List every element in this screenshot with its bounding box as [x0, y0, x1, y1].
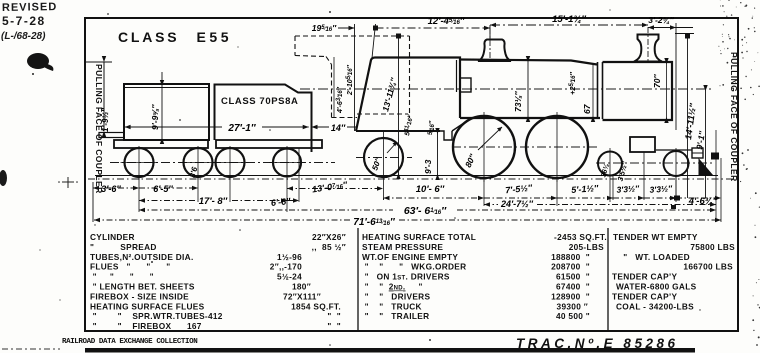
cab step — [440, 131, 452, 140]
dim 15-1 3/4 — [490, 24, 648, 26]
tender underframe bar 1 — [114, 140, 208, 148]
svg-text:FLUES " " ": FLUES " " " — [90, 262, 170, 272]
loco cab — [356, 58, 460, 132]
svg-text:205-LBS: 205-LBS — [569, 242, 604, 252]
dim 73 1/8 — [527, 60, 529, 118]
svg-text:73⅛″: 73⅛″ — [513, 90, 523, 112]
smokebox — [603, 62, 673, 120]
svg-text:" " " WKG.ORDER: " " " WKG.ORDER — [362, 262, 466, 272]
svg-text:1½-96: 1½-96 — [277, 252, 302, 262]
svg-text:128900 ": 128900 " — [551, 291, 590, 301]
smoke stack — [634, 35, 662, 62]
svg-text:PULLING FACE OF COUPLER: PULLING FACE OF COUPLER — [729, 52, 739, 182]
tender wheel 2 — [184, 148, 213, 177]
cab front vent box — [460, 78, 471, 92]
svg-text:75800 LBS: 75800 LBS — [690, 242, 735, 252]
svg-text:2′-105⁄16″: 2′-105⁄16″ — [346, 64, 354, 96]
table divider right — [607, 228, 609, 331]
svg-text:(L-/68-28): (L-/68-28) — [1, 31, 46, 42]
revision note handwriting — [1, 1, 57, 42]
svg-text:3′3½″: 3′3½″ — [649, 183, 673, 195]
svg-text:63′- 61⁄16″: 63′- 61⁄16″ — [404, 205, 447, 217]
svg-text:5-7-28: 5-7-28 — [2, 14, 46, 28]
svg-text:CLASS 70PS8A: CLASS 70PS8A — [221, 96, 298, 107]
front pony wheel — [664, 151, 689, 176]
hole punch blob — [27, 53, 49, 69]
svg-text:12′-45⁄16″: 12′-45⁄16″ — [428, 16, 465, 27]
svg-text:6′-6″: 6′-6″ — [270, 196, 291, 208]
svg-text:15′-1¾″: 15′-1¾″ — [552, 14, 586, 25]
svg-text:166700 LBS: 166700 LBS — [683, 262, 733, 272]
dim 3-2 3/4 — [648, 27, 693, 29]
front coupler — [711, 153, 719, 160]
extension line cab front top — [372, 24, 376, 58]
svg-text:188800 ": 188800 " — [551, 252, 590, 262]
svg-text:6′-5″: 6′-5″ — [153, 184, 173, 194]
svg-text:22″X26″: 22″X26″ — [312, 232, 346, 242]
tender length dim 27-1 — [125, 126, 222, 128]
svg-text:CLASSE55: CLASSE55 — [118, 29, 232, 45]
dim 71-6 13/16 — [94, 219, 350, 221]
svg-text:" LENGTH BET. SHEETS: " LENGTH BET. SHEETS — [90, 282, 195, 292]
svg-text:72″X111″: 72″X111″ — [283, 291, 321, 301]
dim 6-6 — [287, 200, 299, 202]
cylinder box — [630, 137, 655, 152]
dim 3-3 1/2 b — [644, 197, 676, 199]
svg-text:71′-613⁄16″: 71′-613⁄16″ — [353, 217, 396, 228]
svg-text:70″: 70″ — [652, 74, 662, 88]
dim 6-5 — [139, 187, 198, 189]
boiler centerline — [300, 88, 712, 90]
svg-text:FIREBOX - SIZE INSIDE: FIREBOX - SIZE INSIDE — [90, 291, 189, 301]
dim 9-3 5/16 — [437, 132, 439, 176]
svg-text:39300 ″: 39300 ″ — [557, 301, 588, 311]
boiler — [460, 60, 597, 65]
svg-text:STEAM PRESSURE: STEAM PRESSURE — [362, 242, 443, 252]
dim 13-0 7/16 — [287, 188, 383, 190]
svg-text:67: 67 — [582, 103, 592, 114]
dim 67 — [592, 65, 594, 118]
pilot (cowcatcher) — [699, 158, 714, 175]
svg-text:" " " ": " " " " — [90, 272, 154, 282]
pilot bracket — [692, 148, 703, 158]
svg-text:" ": " " — [327, 311, 341, 321]
svg-text:61500 ": 61500 " — [556, 272, 590, 282]
extension lines to dimension tiers — [139, 130, 721, 222]
svg-text:9′-9⅝″: 9′-9⅝″ — [150, 104, 160, 130]
tender wheel 3 — [216, 148, 245, 177]
svg-text:TENDER WT EMPTY: TENDER WT EMPTY — [613, 232, 698, 242]
dim 70 — [666, 62, 668, 119]
top dim 19 5/16 — [338, 27, 355, 29]
svg-text:3′-6″: 3′-6″ — [101, 184, 121, 194]
dashed clearance outline — [295, 36, 410, 118]
extension line cab front bottom — [354, 24, 356, 131]
dim 12-4 5/16 — [376, 27, 491, 29]
front truck wheel 36 5/8 — [598, 152, 622, 176]
svg-text:10′- 6″: 10′- 6″ — [416, 184, 445, 195]
svg-text:1854 SQ.FT.: 1854 SQ.FT. — [291, 301, 341, 311]
tender underframe bar 2 — [216, 140, 322, 148]
table divider left — [357, 228, 359, 331]
svg-text:27′-1″: 27′-1″ — [227, 123, 256, 134]
boiler bands — [597, 62, 599, 119]
svg-text:67400 ": 67400 " — [556, 282, 590, 292]
svg-text:3′3½″: 3′3½″ — [616, 183, 640, 195]
svg-text:" " DRIVERS: " " DRIVERS — [362, 291, 430, 301]
svg-text:WT.OF ENGINE EMPTY: WT.OF ENGINE EMPTY — [362, 252, 458, 262]
tender wheel 4 — [273, 149, 301, 177]
svg-text:HEATING SURFACE TOTAL: HEATING SURFACE TOTAL — [362, 232, 476, 242]
ink mark left edge — [0, 170, 7, 186]
dim 13-11 3/4 cab height — [398, 36, 400, 175]
tender axle centerline — [110, 162, 335, 164]
svg-text:+25⁄16″: +25⁄16″ — [568, 72, 577, 95]
svg-text:195⁄16″: 195⁄16″ — [312, 23, 337, 33]
bottom rule — [85, 348, 695, 353]
gap dim 14 — [312, 126, 330, 128]
svg-text:9′-3: 9′-3 — [423, 159, 433, 174]
svg-text:REVISED: REVISED — [2, 1, 57, 14]
svg-text:TENDER CAP’Y: TENDER CAP’Y — [612, 272, 678, 282]
svg-text:HEATING SURFACE FLUES: HEATING SURFACE FLUES — [90, 301, 205, 311]
svg-text:" " 2ND. ": " " 2ND. " — [362, 282, 423, 292]
rail line — [95, 175, 718, 177]
svg-text:WATER-6800 GALS: WATER-6800 GALS — [616, 282, 697, 292]
svg-text:" SPREAD: " SPREAD — [90, 242, 157, 252]
left margin bottom dashes — [2, 348, 60, 350]
tender wheel 1 — [125, 148, 154, 177]
dim 7-5 1/2 — [484, 197, 557, 199]
svg-text:40 500 ": 40 500 " — [556, 311, 590, 321]
svg-text:" " SPR.WTR.TUBES-41: " " SPR.WTR.TUBES-412 — [90, 311, 223, 321]
svg-text:" ": " " — [327, 321, 341, 331]
svg-text:24′-7½″: 24′-7½″ — [500, 199, 534, 209]
tender coupler vertical dim — [85, 61, 112, 63]
svg-text:RAILROAD DATA EXCHANGE COLLECT: RAILROAD DATA EXCHANGE COLLECTION — [62, 338, 197, 346]
drawing border frame — [85, 18, 738, 331]
svg-text:3′-2¾″: 3′-2¾″ — [648, 15, 674, 25]
steam dome — [478, 40, 511, 62]
dim 10-6 — [384, 197, 485, 199]
svg-text:-2453 SQ.FT.: -2453 SQ.FT. — [554, 232, 607, 242]
dim 3-6 — [93, 187, 139, 189]
svg-text:5′-1½″: 5′-1½″ — [571, 183, 599, 195]
svg-text:17′- 8″: 17′- 8″ — [199, 196, 228, 207]
dim 3-3 1/2 a — [613, 197, 644, 199]
tender body box 1 — [124, 84, 209, 140]
dim 24-7 1/2 — [537, 204, 716, 206]
tender body box 2 CLASS 70PS8A — [215, 85, 312, 153]
svg-text:,, 85 ½″: ,, 85 ½″ — [312, 242, 346, 252]
svg-text:" " TRUCK: " " TRUCK — [362, 301, 422, 311]
svg-text:208700 ": 208700 " — [551, 262, 590, 272]
svg-text:14″: 14″ — [331, 123, 346, 133]
svg-text:TUBES,N².OUTSIDE DIA.: TUBES,N².OUTSIDE DIA. — [90, 252, 194, 262]
svg-text:5½-24: 5½-24 — [277, 272, 302, 282]
loco front frame line — [656, 149, 692, 151]
tender box1 height dim 9-9 5/8 — [161, 72, 163, 140]
svg-text:" " FIREBOX 167: " " FIREBOX 167 — [90, 321, 202, 331]
svg-text:" WT. LOADED: " WT. LOADED — [618, 252, 690, 262]
dim 17-8 — [139, 200, 196, 202]
svg-text:180″: 180″ — [292, 282, 311, 292]
stack top level line — [675, 33, 694, 35]
driver wheel 2 (80in) — [526, 116, 588, 178]
loco small wheel centerline — [356, 157, 412, 159]
dim 4-6 3/16 — [333, 57, 335, 117]
svg-text:" " TRAILER: " " TRAILER — [362, 311, 429, 321]
dim 4-6 3/4 — [676, 197, 721, 199]
svg-text:" ON 1ST. DRIVERS: " ON 1ST. DRIVERS — [362, 272, 450, 282]
dim 63-6 1/16 — [139, 209, 393, 211]
loco trailing wheel 50in — [364, 138, 403, 177]
svg-text:COAL - 34200-LBS: COAL - 34200-LBS — [616, 301, 694, 311]
driver wheel 1 (80in) — [453, 116, 515, 178]
small cross mark left margin — [62, 177, 74, 188]
svg-text:TENDER CAP’Y: TENDER CAP’Y — [612, 291, 678, 301]
dim 5-1 1/2 — [557, 197, 613, 199]
svg-text:CYLINDER: CYLINDER — [90, 232, 135, 242]
svg-text:2″,,-170: 2″,,-170 — [270, 262, 302, 272]
dim 14-11 1/2 stack height — [687, 34, 689, 199]
dim 9-1 boiler center height — [705, 89, 707, 198]
driver centerline — [452, 146, 600, 148]
tender rear coupler — [99, 133, 124, 138]
svg-text:1′-9½″: 1′-9½″ — [101, 107, 110, 132]
